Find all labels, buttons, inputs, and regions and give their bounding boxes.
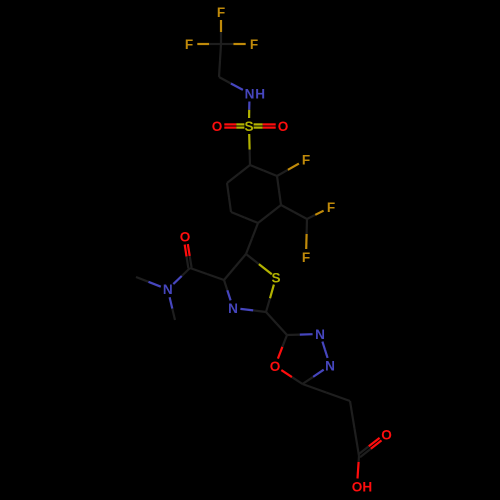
benzene bond C2-C3 [277, 176, 281, 205]
svg-text:N: N [315, 327, 325, 342]
thiazole bond N3-C4 [224, 280, 231, 300]
atom label N (thiazole) [228, 301, 238, 316]
oxadiazole bond N3-N4 [322, 342, 327, 358]
svg-text:F: F [250, 37, 258, 52]
bond CHF2-F (upper) [307, 211, 324, 219]
atom label O (sulfonyl left) [212, 119, 223, 134]
atom label F (CHF2 upper) [327, 200, 335, 215]
benzene bond C4-C5 [231, 212, 258, 223]
atom label N (oxadiazole right) [325, 358, 335, 373]
svg-text:O: O [278, 119, 289, 134]
atom label S (thiazole) [271, 270, 280, 285]
svg-text:O: O [270, 359, 281, 374]
bond N-CH3 (left methyl) [136, 277, 161, 287]
svg-text:O: O [180, 229, 191, 244]
bond thiazole C2 - oxadiazole C5 [266, 312, 287, 335]
double bond S=O (left) [224, 124, 244, 127]
svg-text:F: F [217, 5, 225, 20]
bond C2-F (ring fluorine) [277, 164, 299, 176]
bond C-F (CF3 left F) [197, 43, 221, 45]
svg-text:F: F [302, 250, 310, 265]
atom label O (amide) [180, 229, 191, 244]
svg-text:S: S [271, 270, 280, 285]
benzene bond C1-C2 [250, 165, 277, 176]
atom label O (acid carbonyl) [381, 427, 392, 442]
svg-text:H: H [255, 86, 265, 101]
bond CF3-CH2 [219, 44, 221, 77]
svg-text:N: N [325, 358, 335, 373]
atom label O (sulfonyl right) [278, 119, 289, 134]
oxadiazole bond C5=N3 [287, 333, 313, 336]
svg-text:N: N [163, 282, 173, 297]
bond CH2 - COOH carbon [350, 401, 359, 456]
benzene bond C6-C1 [227, 165, 250, 183]
bond C-N (amide) [173, 268, 190, 284]
oxadiazole bond C2-O1 [281, 370, 302, 384]
double bond C=O (carboxylic acid) [358, 438, 382, 457]
bond oxadiazole C2 - CH2 [303, 384, 351, 401]
atom label O (oxadiazole) [270, 359, 281, 374]
svg-text:O: O [381, 427, 392, 442]
atom label F (CF3 top) [217, 5, 225, 20]
svg-text:F: F [302, 152, 310, 167]
bond C3-CHF2 [281, 205, 307, 219]
svg-text:F: F [327, 200, 335, 215]
benzene bond C3-C4 [258, 205, 281, 223]
bond S-C1 (sulfonyl to benzene) [248, 134, 251, 165]
bond C-F (CF3 right F) [221, 43, 246, 45]
double bond S=O (right) [254, 124, 276, 127]
bond C-F (CF3 top F) [220, 20, 222, 44]
atom label N (amide) [163, 282, 173, 297]
oxadiazole bond O1-C5 [278, 335, 287, 359]
thiazole bond C4=C5 [224, 254, 246, 280]
atom label F (benzene fluorine) [302, 152, 310, 167]
atom label F (CF3 right) [250, 37, 258, 52]
benzene bond C5-C6 [227, 183, 231, 212]
svg-text:F: F [185, 37, 193, 52]
oxadiazole bond N4=C2 [303, 370, 324, 384]
bond C-OH (carboxylic acid) [358, 456, 360, 479]
svg-text:S: S [244, 119, 253, 134]
atom label F (CF3 left) [185, 37, 193, 52]
svg-text:N: N [228, 301, 238, 316]
svg-text:N: N [245, 86, 255, 101]
bond CH2-NH [219, 77, 243, 90]
thiazole bond C2=N3 [240, 309, 266, 312]
atom label NH (sulfonamide) [245, 86, 266, 101]
svg-text:H: H [362, 479, 372, 494]
atom label F (CHF2 lower) [302, 250, 310, 265]
svg-text:O: O [352, 479, 363, 494]
svg-text:O: O [212, 119, 223, 134]
bond benzene C4 - thiazole C5 [246, 223, 258, 254]
double bond C=O (amide) [185, 244, 192, 268]
atom label N (oxadiazole top) [315, 327, 325, 342]
bond N-CH3 (lower methyl) [170, 297, 175, 320]
atom label OH (acid) [352, 479, 373, 494]
atom label S (sulfonyl) [244, 119, 253, 134]
bond thiazole C4 - amide C [190, 268, 224, 280]
thiazole bond C5-S1 [246, 254, 272, 274]
bond CHF2-F (lower) [305, 219, 308, 249]
thiazole bond S1-C2 [266, 285, 274, 312]
bond NH-S (sulfonamide) [248, 102, 250, 119]
